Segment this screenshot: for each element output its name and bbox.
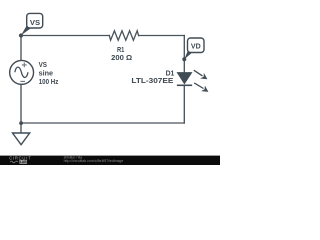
wire left vertical lower from source [20,85,22,123]
wire right vertical lower from LED cathode [183,85,185,123]
svg-text:VS: VS [30,18,40,27]
svg-text:LAB: LAB [20,160,28,164]
voltage source minus sign [20,80,25,82]
voltage source VS circle [10,60,34,84]
svg-text:100 Hz: 100 Hz [39,77,59,86]
junction dot ground node [19,121,23,125]
wire left vertical upper to source [20,36,22,61]
watermark bar [0,156,220,165]
LED emission arrow 1 [194,70,208,79]
resistor R1 [109,31,138,40]
LED emission arrow 2 [194,83,208,92]
ground symbol [13,133,30,145]
svg-text:http://circuitlab.com/c/8e4f57: http://circuitlab.com/c/8e4f57/ledimage [64,159,124,163]
junction dot node VS [19,33,23,37]
net flag VS tail [21,25,31,35]
svg-text:LTL-307EE: LTL-307EE [131,76,173,85]
watermark logo LAB box [19,160,27,164]
junction dot node VD [182,57,186,61]
net flag VS box [27,13,43,28]
watermark logo wave [10,161,18,163]
svg-text:200 Ω: 200 Ω [111,53,132,62]
net flag VD box [188,38,205,53]
LED D1 triangle [177,73,191,84]
svg-text:VD: VD [191,41,201,50]
wire ground stub [20,123,22,133]
svg-text:VS: VS [39,60,47,69]
wire right vertical upper to LED anode [183,36,185,73]
wire top horizontal right of R1 to corner [139,35,185,37]
voltage source VS sine wave [15,67,28,77]
voltage source plus sign [22,63,27,68]
wire top horizontal left of R1 [21,35,109,37]
wire bottom horizontal [21,122,184,124]
LED D1 cathode bar [177,84,192,86]
net flag VD tail [184,50,192,60]
